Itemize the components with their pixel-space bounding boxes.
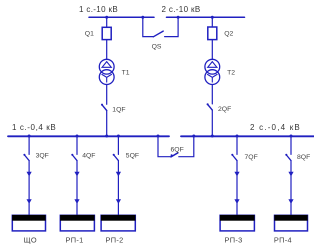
junction QS left drop / bus 1 <box>141 16 144 19</box>
svg-text:QS: QS <box>152 44 162 51</box>
transformer T1 <box>99 59 114 84</box>
T2 wye symbol <box>208 74 218 82</box>
svg-text:Q1: Q1 <box>85 30 94 37</box>
svg-text:T2: T2 <box>227 70 235 77</box>
svg-text:6QF: 6QF <box>171 146 184 153</box>
panel РП-3 busbar (black) <box>220 215 255 221</box>
junction 3QF feeder / bus 3 <box>28 135 31 138</box>
panel РП-2 outline <box>101 215 135 231</box>
wire bus to breaker 3QF <box>28 136 30 154</box>
svg-text:2 с.-0,4 кВ: 2 с.-0,4 кВ <box>250 123 301 132</box>
svg-text:1QF: 1QF <box>112 106 125 113</box>
panel РП-1 outline <box>60 215 94 231</box>
svg-text:4QF: 4QF <box>82 153 95 160</box>
bus section 1, 0.4 kV <box>8 135 169 137</box>
wire bus to breaker 5QF <box>117 136 119 154</box>
wire Q2 to T2 <box>211 40 213 60</box>
svg-text:Q2: Q2 <box>224 30 233 37</box>
wire bus 1 to Q1 <box>106 17 108 27</box>
panel РП-4 outline <box>275 215 308 231</box>
svg-text:7QF: 7QF <box>245 154 258 161</box>
wire Q1 to T1 <box>106 40 108 60</box>
wire bus to breaker 4QF <box>76 136 78 154</box>
junction Q2 drop / bus 2 <box>211 16 214 19</box>
flow arrow 2 on РП-2 feeder <box>116 199 121 204</box>
flow arrow 1 on РП-3 feeder <box>234 172 239 177</box>
bus-tie breaker 6QF <box>158 136 194 157</box>
bus section 2, 10 kV <box>167 16 245 18</box>
QS blade <box>153 31 163 37</box>
junction 8QF feeder / bus 4 <box>290 135 293 138</box>
svg-text:3QF: 3QF <box>36 153 49 160</box>
T2 delta symbol <box>208 62 217 68</box>
feeder to ЩО with breaker 3QF <box>23 136 31 215</box>
breaker 7QF blade <box>232 155 237 161</box>
feeder to РП-4 with breaker 8QF <box>285 136 293 215</box>
breaker 2QF <box>207 103 213 110</box>
svg-text:РП-1: РП-1 <box>66 235 84 244</box>
wire bus to breaker 8QF <box>290 136 292 154</box>
flow arrow 2 on РП-1 feeder <box>74 199 79 204</box>
svg-text:5QF: 5QF <box>126 153 139 160</box>
svg-text:ЩО: ЩО <box>24 235 37 244</box>
wire 5QF to panel РП-2 <box>117 161 119 216</box>
flow arrow 2 on ЩО feeder <box>27 199 32 204</box>
junction 5QF feeder / bus 3 <box>117 135 120 138</box>
svg-text:2QF: 2QF <box>218 106 231 113</box>
junction Q1 drop / bus 1 <box>105 16 108 19</box>
svg-text:1 с.-0,4 кВ: 1 с.-0,4 кВ <box>12 123 56 132</box>
wire 1QF to bus section 1, 0.4 kV <box>106 111 108 137</box>
junction 7QF feeder / bus 4 <box>236 135 239 138</box>
QS right contact and drop <box>165 17 179 36</box>
feeder to РП-1 with breaker 4QF <box>71 136 79 215</box>
wire 7QF to panel РП-3 <box>236 161 238 216</box>
breaker 5QF contact knob <box>113 154 115 156</box>
T1 wye symbol <box>102 74 112 82</box>
svg-text:T1: T1 <box>122 70 130 77</box>
bus section 1, 10 kV <box>89 16 154 18</box>
flow arrow 1 on РП-1 feeder <box>74 172 79 177</box>
breaker 1QF contact knob <box>101 104 103 106</box>
panel РП-4 busbar (black) <box>274 215 307 221</box>
svg-text:1 с.-10 кВ: 1 с.-10 кВ <box>79 5 118 14</box>
junction 6QF right drop / bus 4 <box>192 135 195 138</box>
wire T1 to 1QF <box>106 85 108 105</box>
svg-text:РП-2: РП-2 <box>106 235 124 244</box>
flow arrow 1 on РП-4 feeder <box>288 172 293 177</box>
panel РП-3 outline <box>220 215 254 231</box>
6QF contact knob <box>171 154 173 156</box>
T1 secondary winding <box>99 70 114 85</box>
wire bus 2 to Q2 <box>211 17 213 27</box>
breaker 8QF contact knob <box>285 154 287 156</box>
QS left drop and contact <box>143 17 154 36</box>
panel ЩО busbar (black) <box>12 215 46 221</box>
T1 delta symbol <box>102 62 111 68</box>
wire 8QF to panel РП-4 <box>290 161 292 216</box>
junction 4QF feeder / bus 3 <box>76 135 79 138</box>
breaker 2QF contact knob <box>207 103 209 105</box>
feeder to РП-3 with breaker 7QF <box>231 136 239 215</box>
svg-text:РП-4: РП-4 <box>274 235 292 244</box>
disconnector QS (10 kV bus tie) <box>143 17 178 37</box>
flow arrow 1 on ЩО feeder <box>27 172 32 177</box>
panel ЩО outline <box>12 215 45 231</box>
flow arrow 2 on РП-3 feeder <box>234 199 239 204</box>
breaker 2QF blade <box>208 105 213 111</box>
flow arrow 1 on РП-2 feeder <box>116 172 121 177</box>
wire 2QF to bus section 2, 0.4 kV <box>211 110 213 136</box>
wire bus to breaker 7QF <box>236 136 238 154</box>
transformer T2 <box>205 59 220 84</box>
breaker 3QF blade <box>25 155 30 161</box>
breaker 7QF contact knob <box>231 154 233 156</box>
wire 4QF to panel РП-1 <box>76 161 78 216</box>
6QF right contact and drop <box>179 136 194 156</box>
switch Q1 (cell square) <box>102 27 111 39</box>
feeder to РП-2 with breaker 5QF <box>113 136 121 215</box>
breaker 4QF blade <box>72 155 77 161</box>
panel РП-2 busbar (black) <box>101 215 136 221</box>
bus section 2, 0.4 kV <box>181 135 314 137</box>
wire 3QF to panel ЩО <box>28 161 30 216</box>
panel РП-1 busbar (black) <box>60 215 95 221</box>
T2 primary winding <box>205 59 220 74</box>
svg-text:РП-3: РП-3 <box>225 235 243 244</box>
6QF left drop and contact <box>158 136 170 156</box>
junction 1QF incomer / bus 3 <box>105 135 108 138</box>
T1 primary winding <box>99 59 114 74</box>
svg-text:8QF: 8QF <box>297 154 310 161</box>
wire T2 to 2QF <box>211 85 213 104</box>
breaker 3QF contact knob <box>23 154 25 156</box>
flow arrow 2 on РП-4 feeder <box>288 199 293 204</box>
breaker 1QF blade <box>102 105 107 111</box>
junction 2QF incomer / bus 4 <box>211 135 214 138</box>
junction QS right drop / bus 2 <box>177 16 180 19</box>
switch Q2 (cell square) <box>208 27 217 40</box>
svg-text:2 с.-10 кВ: 2 с.-10 кВ <box>162 5 201 14</box>
6QF blade <box>171 153 178 157</box>
breaker 1QF <box>101 104 107 111</box>
junction 6QF left drop / bus 3 <box>157 135 160 138</box>
T2 secondary winding <box>205 70 220 85</box>
breaker 4QF contact knob <box>71 154 73 156</box>
breaker 5QF blade <box>114 155 119 161</box>
breaker 8QF blade <box>286 155 291 161</box>
